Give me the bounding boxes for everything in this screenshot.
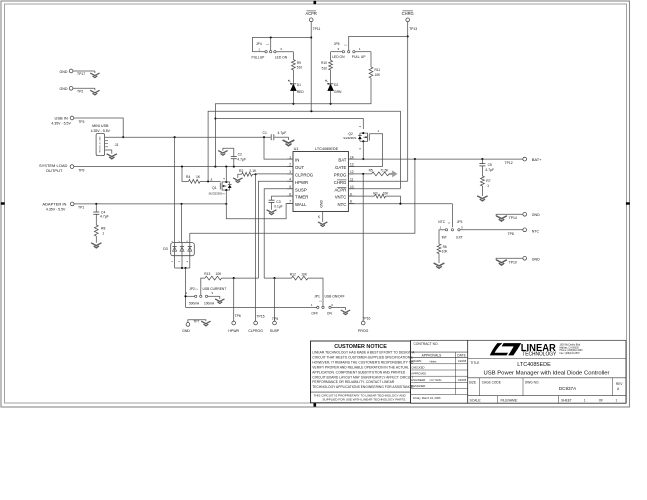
border inner frame — [5, 4, 627, 403]
wire TP3 to VBUS — [74, 118, 124, 137]
jumper JP4 pins — [252, 51, 265, 53]
ground U1 pin15 — [318, 222, 327, 227]
resistor R4 — [189, 180, 201, 184]
junction ADAPTER-Q1-WALL — [225, 203, 227, 205]
svg-text:DWG NO.: DWG NO. — [525, 380, 539, 384]
svg-text:GND: GND — [60, 70, 68, 74]
svg-text:R2: R2 — [239, 169, 243, 173]
wire D3 common bus — [175, 267, 190, 269]
svg-text:TP7: TP7 — [193, 320, 199, 324]
wire JP2 pin3 to gnd — [208, 295, 220, 297]
wire NTC to JP3 — [451, 204, 453, 228]
resistor R2 — [242, 172, 253, 176]
svg-text:GND: GND — [60, 87, 68, 91]
capacitor C3 — [269, 199, 275, 201]
svg-text:CIRCUIT THAT MEETS CUSTOMER-SU: CIRCUIT THAT MEETS CUSTOMER-SUPPLIED SPE… — [312, 356, 413, 360]
customer notice box — [311, 341, 411, 403]
svg-text:APPLICATION. COMPONENT SUBSTI: APPLICATION. COMPONENT SUBSTITUTION AND … — [312, 370, 406, 374]
svg-text:VBUS D- D+ GND: VBUS D- D+ GND — [99, 136, 101, 153]
diode D3a — [174, 243, 176, 256]
wire JP5 to R10 — [330, 52, 332, 61]
svg-text:14: 14 — [350, 155, 354, 159]
svg-text:4.7µF: 4.7µF — [237, 157, 246, 161]
wire BATloop to D3 pin3 — [189, 233, 191, 242]
ground R6 — [434, 263, 445, 268]
svg-text:RED: RED — [297, 90, 305, 94]
junction ADAPTER-D3 — [180, 203, 182, 205]
wire R4 left leg — [182, 167, 189, 182]
svg-text:HOWEVER, IT REMAINS THE CUSTOM: HOWEVER, IT REMAINS THE CUSTOMER'S RESPO… — [312, 360, 413, 364]
svg-text:TP11: TP11 — [313, 27, 321, 31]
junction LEDbus-D1 — [292, 103, 294, 105]
svg-text:DESIGNER: DESIGNER — [411, 384, 425, 388]
svg-text:HPWR: HPWR — [228, 329, 239, 333]
svg-text:LED ON: LED ON — [275, 55, 288, 59]
svg-text:DC937A: DC937A — [559, 386, 577, 391]
svg-text:JP1: JP1 — [314, 295, 320, 299]
svg-text:CLPROG: CLPROG — [248, 329, 263, 333]
svg-text:D2: D2 — [334, 83, 338, 87]
svg-text:1K: 1K — [196, 175, 201, 179]
svg-text:2: 2 — [289, 163, 291, 167]
svg-text:TP1: TP1 — [78, 205, 84, 209]
jumper JP1 pins — [317, 306, 319, 308]
svg-text:GND: GND — [182, 329, 190, 333]
svg-text:11: 11 — [350, 178, 354, 182]
svg-text:LTC4085EDE: LTC4085EDE — [517, 362, 551, 368]
jumper JP2 pins — [195, 295, 197, 297]
svg-text:ACPR: ACPR — [334, 187, 346, 192]
op-amp U1 pin15 stub — [322, 212, 324, 222]
wire R2 to CLPROG — [252, 173, 255, 175]
wire GATE pin — [348, 166, 382, 168]
svg-text:9: 9 — [350, 192, 352, 196]
transistor Q2 — [367, 133, 369, 142]
svg-text:R10: R10 — [321, 61, 327, 65]
junction D3 bus a — [181, 267, 183, 269]
svg-text:C5: C5 — [488, 163, 492, 167]
wire R6 to ground — [438, 254, 440, 264]
svg-text:LTC4085EDE: LTC4085EDE — [315, 147, 339, 151]
diode D3b — [181, 243, 183, 256]
svg-text:PROG: PROG — [358, 329, 369, 333]
svg-text:GND: GND — [320, 199, 324, 207]
junction LEDbus-D2 — [330, 103, 332, 105]
svg-text:Phone: (408)432-1900: Phone: (408)432-1900 — [560, 350, 584, 352]
junction ADAPTER-C4 — [95, 203, 97, 205]
ground TP17 — [94, 71, 96, 73]
svg-text:LINEAR TECHNOLOGY HAS MADE A B: LINEAR TECHNOLOGY HAS MADE A BEST EFFORT… — [312, 351, 415, 355]
svg-text:ON: ON — [327, 312, 333, 316]
junction VBUS-D3 — [174, 136, 176, 138]
ground TP14 — [495, 214, 497, 215]
svg-text:SIZE: SIZE — [469, 380, 476, 384]
wire TP2 to ground — [73, 87, 95, 89]
wire JP3 pin3 to TP8 — [460, 229, 523, 231]
svg-text:R3: R3 — [373, 191, 377, 195]
svg-text:REV: REV — [616, 382, 623, 386]
junction BAT-loop — [414, 158, 416, 160]
svg-text:TP14: TP14 — [509, 216, 517, 220]
svg-text:1: 1 — [487, 184, 489, 188]
wire JP3 pin1 to R6 — [438, 230, 441, 244]
junction NTC-VNTC — [399, 203, 401, 205]
svg-text:TP12: TP12 — [505, 161, 513, 165]
testpoint TP17 — [69, 69, 73, 73]
svg-text:Friday, March 24, 2006: Friday, March 24, 2006 — [413, 396, 441, 400]
wire ACPR vertical — [310, 22, 312, 112]
ground C2 — [218, 151, 227, 156]
svg-text:3: 3 — [289, 170, 291, 174]
svg-text:INT: INT — [442, 236, 447, 240]
testpoint TP11 — [309, 18, 313, 22]
svg-text:Helen: Helen — [430, 360, 437, 364]
svg-text:JP5: JP5 — [334, 42, 340, 46]
svg-text:10K: 10K — [442, 249, 449, 253]
wire Q2 bottom to BAT — [362, 141, 364, 159]
connector J1 body — [96, 134, 105, 156]
wire SUSP net — [264, 277, 291, 279]
titleblock approvals grid — [411, 340, 468, 403]
wire JP4 to R9 — [292, 52, 294, 60]
testpoint TP16 — [361, 321, 365, 325]
resistor R7 — [481, 176, 485, 186]
titleblock size row — [479, 378, 481, 396]
svg-text:C2: C2 — [238, 152, 242, 156]
svg-text:TP2: TP2 — [77, 89, 83, 93]
wire VBUS line — [123, 136, 271, 138]
svg-text:1: 1 — [289, 155, 291, 159]
svg-text:PERFORMANCE OR RELIABILITY. C: PERFORMANCE OR RELIABILITY. CONTACT LINE… — [312, 380, 395, 384]
wire ACPR long — [208, 111, 400, 189]
op-amp U1 body — [293, 152, 348, 212]
testpoint TP5 — [273, 321, 277, 325]
svg-text:SUPPLIED FOR USE WITH LINEAR T: SUPPLIED FOR USE WITH LINEAR TECHNOLOGY … — [323, 397, 407, 401]
svg-text:2.1K: 2.1K — [249, 169, 257, 173]
svg-text:CONTRACT NO.: CONTRACT NO. — [414, 342, 439, 346]
svg-text:DATE: DATE — [457, 353, 466, 357]
junction CHRG-JP5 — [407, 35, 409, 37]
svg-text:USB Power Manager with Ideal D: USB Power Manager with Ideal Diode Contr… — [484, 371, 610, 377]
junction JP4 pin2 riser — [270, 36, 272, 38]
svg-text:R9: R9 — [297, 61, 301, 65]
junction VOUT-LEDbus — [214, 166, 216, 168]
svg-text:WALL: WALL — [295, 202, 307, 207]
svg-text:PULLUP: PULLUP — [252, 55, 266, 59]
resistor R12 — [292, 276, 309, 280]
svg-text:GATE: GATE — [335, 165, 347, 170]
testpoint TP13 — [406, 18, 410, 22]
ground TP2 — [94, 88, 96, 90]
wire NTC pin — [348, 203, 452, 205]
junction PROG — [362, 173, 364, 175]
wire JP1 pin3 to gnd — [331, 306, 345, 308]
svg-text:USB CURRENT: USB CURRENT — [203, 287, 227, 291]
junction VBUS-IN — [263, 136, 265, 138]
testpoint TP14 — [523, 212, 527, 216]
svg-text:5: 5 — [289, 185, 291, 189]
svg-text:MINI USB: MINI USB — [92, 124, 109, 128]
capacitor C1 — [270, 134, 272, 140]
wire IN pin — [264, 137, 293, 159]
svg-text:APPROVED: APPROVED — [411, 372, 426, 376]
svg-text:IN: IN — [295, 158, 299, 163]
wire TP6 drop — [233, 278, 235, 321]
svg-text:100mA: 100mA — [204, 301, 215, 305]
svg-text:TP5: TP5 — [272, 317, 278, 321]
wire VNTC pin — [348, 195, 374, 197]
svg-text:NTC: NTC — [438, 220, 445, 224]
svg-text:SUSP: SUSP — [270, 329, 280, 333]
svg-text:CLPROG: CLPROG — [295, 173, 314, 178]
wire HPWR pin — [258, 181, 293, 278]
svg-text:PULL UP: PULL UP — [352, 55, 366, 59]
junction CLPROG — [255, 173, 257, 175]
testpoint TP8 — [523, 228, 527, 232]
svg-text:SUSP: SUSP — [295, 187, 307, 192]
svg-text:NTC: NTC — [532, 229, 540, 233]
svg-text:4.7µF: 4.7µF — [100, 215, 109, 219]
svg-text:D1: D1 — [297, 83, 301, 87]
svg-text:NTC: NTC — [338, 202, 347, 207]
svg-text:C1: C1 — [263, 131, 267, 135]
svg-text:OUT: OUT — [295, 165, 304, 170]
svg-text:CHECKED: CHECKED — [411, 365, 424, 369]
svg-text:CAGE CODE: CAGE CODE — [482, 380, 501, 384]
svg-text:13: 13 — [350, 163, 354, 167]
svg-text:8: 8 — [350, 200, 352, 204]
jumper JP3 pins — [440, 229, 446, 231]
resistor R10 — [329, 60, 333, 70]
svg-text:4.7µF: 4.7µF — [278, 131, 287, 135]
svg-text:TP10: TP10 — [509, 260, 517, 264]
svg-text:TP8: TP8 — [508, 232, 514, 236]
testpoint TP10 — [523, 256, 527, 260]
svg-text:500mA: 500mA — [189, 301, 200, 305]
junction ACPR-TP11wire — [310, 110, 312, 112]
diode D1 LED — [291, 83, 297, 85]
connector J1 pin stubs — [105, 139, 108, 141]
svg-text:TP3: TP3 — [78, 120, 84, 124]
capacitor C2 — [223, 148, 234, 150]
resistor R3 — [374, 194, 385, 198]
svg-text:Milpitas, CA 95035: Milpitas, CA 95035 — [560, 346, 580, 349]
svg-text:LIU YANG: LIU YANG — [430, 378, 442, 382]
svg-text:4.35V - 5.5V: 4.35V - 5.5V — [51, 122, 71, 126]
testpoint TP7 — [186, 323, 190, 327]
junction JP2 pin1 — [184, 295, 186, 297]
svg-text:GND: GND — [532, 257, 540, 261]
border zone tick top — [314, 1, 317, 4]
wire CLPROG down to TP15 — [255, 174, 257, 321]
wire R8 to ground — [95, 236, 97, 243]
wire D1 to bus — [292, 91, 294, 104]
wire BAT line — [348, 158, 523, 160]
svg-text:TP16: TP16 — [362, 317, 370, 321]
ground TP7 — [201, 321, 210, 326]
wire R5 arrow — [389, 170, 397, 177]
svg-text:APPROVALS: APPROVALS — [422, 353, 443, 357]
svg-text:C3: C3 — [276, 200, 280, 204]
svg-text:7: 7 — [289, 200, 291, 204]
svg-text:1630 McCarthy Blvd.: 1630 McCarthy Blvd. — [560, 344, 582, 347]
diode array D3 body — [171, 243, 195, 256]
jumper JP5 pins — [331, 51, 343, 53]
svg-text:10K: 10K — [383, 191, 390, 195]
diode D2 LED — [328, 83, 334, 85]
wire Q2 to VOUT — [215, 119, 363, 130]
junction HPWR-TP6 — [233, 277, 235, 279]
wire WALL pin — [226, 204, 293, 219]
svg-text:10K: 10K — [375, 73, 382, 77]
svg-text:1/26/05: 1/26/05 — [458, 378, 467, 382]
svg-text:1/26/05: 1/26/05 — [458, 359, 467, 363]
wire JP2-JP1 long net — [186, 306, 317, 308]
svg-text:15: 15 — [317, 215, 321, 219]
border outer frame — [1, 1, 630, 407]
svg-text:510: 510 — [322, 66, 328, 70]
junction VOUT-Q1 — [225, 166, 227, 168]
titleblock LT logo — [490, 343, 508, 355]
wire BAT loop — [190, 159, 415, 233]
capacitor C4 — [95, 204, 97, 212]
ground R8 — [91, 243, 101, 248]
svg-text:JP3: JP3 — [457, 220, 463, 224]
wire ADAPTER line — [74, 203, 226, 205]
svg-text:TP9: TP9 — [78, 168, 84, 172]
svg-text:VERIFY PROPER AND RELIABLE OPE: VERIFY PROPER AND RELIABLE OPERATION IN … — [312, 365, 409, 369]
svg-text:4.7µF: 4.7µF — [485, 168, 494, 172]
svg-text:JP4: JP4 — [256, 42, 262, 46]
ground TP10 — [495, 258, 497, 259]
wire Q2 gate — [369, 134, 382, 167]
svg-text:Q2: Q2 — [348, 132, 353, 136]
svg-text:TP13: TP13 — [409, 27, 417, 31]
svg-text:10K: 10K — [216, 272, 223, 276]
svg-text:ADAPTER IN: ADAPTER IN — [42, 202, 66, 207]
junction BAT-C5 — [481, 158, 483, 160]
titleblock scale row — [497, 396, 499, 404]
svg-text:R4: R4 — [186, 175, 190, 179]
svg-text:R11: R11 — [375, 68, 381, 72]
svg-text:DRAWN: DRAWN — [411, 359, 421, 363]
junction VBUS-TP3 — [122, 136, 124, 138]
border zone tick bottom — [314, 403, 317, 407]
ground J1 — [107, 154, 117, 159]
svg-text:EXT: EXT — [456, 236, 462, 240]
svg-text:TIMER: TIMER — [295, 195, 308, 200]
testpoint TP2 — [69, 86, 73, 90]
svg-text:10: 10 — [350, 185, 354, 189]
svg-text:OUTPUT: OUTPUT — [46, 168, 63, 173]
wire PROG pin — [348, 173, 371, 175]
svg-text:ENGINEER: ENGINEER — [411, 378, 425, 382]
svg-text:OF: OF — [599, 399, 603, 403]
svg-text:LED ON: LED ON — [332, 55, 345, 59]
junction BAT-Q2 — [362, 158, 364, 160]
svg-text:D3: D3 — [163, 247, 168, 251]
svg-text:GND: GND — [532, 213, 540, 217]
svg-text:TP17: TP17 — [77, 72, 85, 76]
svg-text:U1: U1 — [294, 147, 299, 151]
svg-text:4: 4 — [289, 178, 291, 182]
junction D3 bus b — [184, 267, 186, 269]
junction VOUT-R4 — [181, 166, 183, 168]
svg-text:JP2: JP2 — [189, 287, 195, 291]
svg-text:TECHNOLOGY APPLICATIONS ENGINE: TECHNOLOGY APPLICATIONS ENGINEERING FOR … — [312, 385, 414, 389]
testpoint TP12 — [523, 157, 527, 161]
svg-text:71.5K: 71.5K — [380, 169, 389, 173]
wire TIMER pin — [272, 196, 294, 200]
wire PROG down to TP16 — [362, 174, 364, 321]
wire ADAPTER to D3 pin2 — [181, 204, 183, 243]
resistor R8 — [94, 225, 98, 236]
wire TP10 to ground — [496, 257, 523, 259]
junction SUSP-TP5 — [273, 277, 275, 279]
svg-text:4.35V - 5.5V: 4.35V - 5.5V — [91, 129, 111, 133]
svg-text:1: 1 — [584, 399, 586, 403]
testpoint TP3 — [70, 116, 74, 120]
wire R7 to ground — [481, 186, 483, 196]
wire HPWR net — [222, 277, 259, 279]
resistor R9 — [292, 60, 296, 70]
svg-text:GRN: GRN — [334, 90, 342, 94]
ground JP2 — [215, 299, 224, 304]
wire CHRG vertical — [407, 22, 409, 182]
svg-text:CIRCUIT BOARD LAYOUT MAY SIGNI: CIRCUIT BOARD LAYOUT MAY SIGNIFICANTLY A… — [312, 375, 413, 379]
border zone tick right — [626, 202, 630, 204]
wire VBUS to D3 pin1 — [174, 137, 176, 242]
svg-text:R12: R12 — [290, 273, 296, 277]
svg-text:J1: J1 — [115, 143, 119, 147]
svg-text:1: 1 — [102, 231, 104, 235]
wire R3 to NTC — [386, 196, 401, 204]
testpoint TP6 — [232, 321, 236, 325]
svg-text:OFF: OFF — [311, 312, 318, 316]
wire JP5 pin1 to R11 — [370, 52, 372, 67]
ground R7 — [477, 196, 487, 201]
resistor R6 — [437, 244, 441, 254]
resistor R13 left leg — [201, 278, 205, 295]
wire JP5 top — [349, 36, 408, 50]
resistor R2 gnd leg — [238, 174, 242, 178]
svg-text:R8: R8 — [101, 226, 105, 230]
svg-text:ACPR: ACPR — [306, 11, 317, 16]
svg-text:10K: 10K — [301, 273, 308, 277]
ground R2 — [233, 178, 242, 183]
wire D3 bottom pins — [174, 256, 176, 268]
diode D3c — [189, 243, 191, 256]
border zone tick left — [1, 202, 5, 204]
testpoint TP1 — [70, 202, 74, 206]
wire R9 to D1 — [292, 70, 294, 84]
junction LEDbus-Q2wire — [214, 117, 216, 119]
testpoint TP9 — [70, 165, 74, 169]
svg-text:CHRG: CHRG — [402, 11, 414, 16]
wire CLPROG pin — [256, 173, 293, 175]
svg-text:HPWR: HPWR — [295, 180, 308, 185]
svg-text:TP6: TP6 — [235, 314, 241, 318]
svg-text:VNTC: VNTC — [335, 195, 347, 200]
ground JP1 — [341, 310, 350, 315]
svg-text:Si2323DS: Si2323DS — [343, 136, 356, 140]
wire D2 to bus — [330, 91, 332, 104]
junction gate-R4 — [207, 180, 209, 182]
resistor R13 — [205, 276, 222, 280]
svg-text:SHEET: SHEET — [561, 399, 572, 403]
ground C3 — [267, 210, 277, 215]
wire TP17 to ground — [73, 70, 95, 72]
